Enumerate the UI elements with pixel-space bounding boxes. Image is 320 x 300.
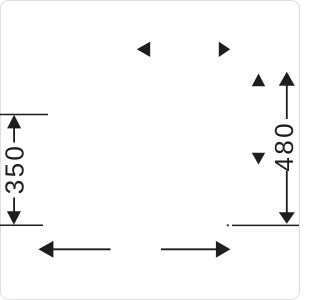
- dimension 350 line upper segment: [13, 127, 15, 143]
- dimension 480 line lower segment: [286, 171, 288, 214]
- svg-text:350: 350: [0, 144, 29, 195]
- right gap up arrowhead: [252, 74, 265, 87]
- dimension 350 down arrowhead: [7, 211, 21, 225]
- dimension 350 line lower segment: [13, 198, 15, 212]
- dimension 480 up arrowhead: [279, 72, 295, 86]
- dimension 350 up arrowhead: [7, 115, 21, 129]
- dimension 480 down arrowhead: [279, 212, 295, 224]
- bottom width right arrowhead: [216, 241, 231, 258]
- top width arrowhead left: [137, 42, 150, 57]
- right gap down arrowhead: [252, 153, 265, 165]
- top width arrowhead right: [219, 42, 230, 57]
- extension line top-left (350 upper reference): [0, 114, 48, 116]
- svg-text:480: 480: [269, 121, 299, 172]
- bottom width dimension line right segment: [161, 248, 217, 250]
- dimension 480 line upper segment: [286, 85, 288, 120]
- bottom width left arrowhead: [38, 241, 53, 258]
- extension line bottom-right (480 lower reference): [232, 224, 299, 226]
- red registration dot: [227, 224, 229, 226]
- bottom width dimension line left segment: [53, 248, 111, 250]
- extension line bottom-left (350 lower reference): [0, 224, 43, 226]
